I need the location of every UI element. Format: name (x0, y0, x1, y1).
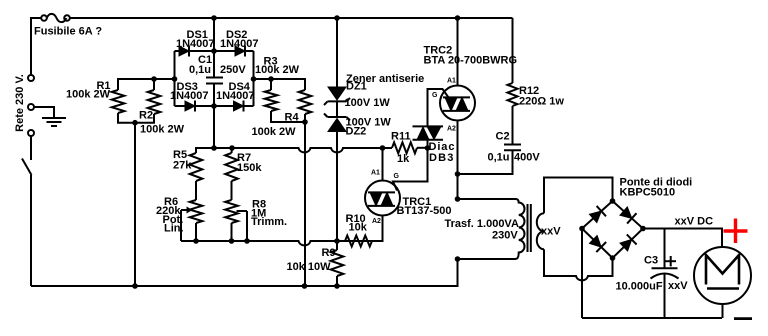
resistor R2 (148, 79, 161, 114)
svg-text:0,1u: 0,1u (488, 151, 510, 163)
junction dot bridge left (172, 76, 178, 82)
label R8 (252, 199, 266, 211)
svg-text:C3: C3 (644, 254, 658, 266)
wire secondary top (544, 178, 613, 214)
junction dot R4 bottom (302, 119, 308, 125)
wire R2-bottom vertical (134, 123, 136, 286)
capacitor C1 (206, 51, 223, 106)
junction dot R4-bottom rail (302, 283, 308, 289)
label R6 Pot. (163, 214, 184, 226)
junction dot bridge top center (211, 48, 217, 54)
junction dot top rail to TRC2 (455, 15, 461, 21)
svg-text:R11: R11 (391, 131, 411, 143)
capacitor C3 plus sign (666, 256, 677, 266)
label DS4 value 1N4007 (216, 90, 255, 102)
svg-text:1N4007: 1N4007 (216, 90, 255, 102)
label R12 (519, 85, 539, 97)
wire phase-shift node (196, 148, 392, 153)
wire R4-bottom vertical (304, 122, 306, 286)
wire bridge center down (213, 106, 215, 148)
svg-text:27k: 27k (173, 160, 192, 172)
resistor R12 (508, 83, 518, 106)
wire bridge right edge (253, 51, 255, 106)
junction dot bridge2 bottom (610, 255, 616, 261)
label R6 value 220k (156, 205, 181, 217)
label DB3 (429, 152, 455, 164)
label DS3 (177, 81, 198, 93)
label DZ2 value 100V 1W (346, 117, 392, 129)
capacitor C3 curved plate (651, 274, 679, 279)
wire bridge top row (175, 50, 254, 52)
label R6 (164, 196, 178, 208)
svg-text:220Ω 1w: 220Ω 1w (519, 96, 564, 108)
label C1 voltage 250V (220, 64, 246, 76)
label R10 (346, 213, 366, 225)
ground earth symbol (42, 118, 66, 126)
diode DS2 (235, 46, 245, 57)
transformer core (528, 204, 531, 252)
svg-text:100k 2W: 100k 2W (255, 64, 300, 76)
svg-text:BTA 20-700BWRG: BTA 20-700BWRG (424, 54, 518, 66)
label secondary xxV (541, 226, 561, 238)
diode DS3 (185, 101, 195, 112)
label xxV DC (675, 215, 714, 227)
svg-text:Fusibile 6A ?: Fusibile 6A ? (34, 26, 102, 38)
wire R7 R8 join (231, 181, 233, 200)
wire R3 R4 top (254, 79, 306, 90)
label C1 (198, 54, 212, 66)
label R6 Lin. (164, 223, 184, 235)
zener diode DZ1 (324, 87, 350, 105)
label DZ1 (346, 81, 367, 93)
label C2 voltage 400V (514, 151, 540, 163)
terminal plug pin E (28, 104, 34, 110)
triac TRC1 (365, 181, 400, 216)
resistor R10 (345, 216, 383, 247)
junction dot R7 top (229, 145, 235, 151)
diac DB3 (413, 126, 444, 139)
trimmer R8 (225, 200, 238, 241)
label DS4 (229, 81, 251, 93)
svg-text:C2: C2 (496, 131, 510, 143)
label R10 value 10k (349, 221, 368, 233)
svg-text:10k: 10k (349, 221, 368, 233)
svg-text:100k 2W: 100k 2W (140, 124, 185, 136)
zener diode DZ2 (324, 114, 350, 132)
wire bridge center top (213, 18, 215, 51)
wire secondary bottom (544, 249, 613, 280)
label DS3 value 1N4007 (170, 90, 209, 102)
svg-text:R2: R2 (139, 110, 153, 122)
svg-text:A2: A2 (372, 218, 381, 225)
fuse F1 Fusibile 6A (41, 14, 512, 22)
terminal plug pin N (28, 130, 34, 136)
wire motor bottom (722, 304, 724, 318)
svg-text:1N4007: 1N4007 (220, 38, 259, 50)
svg-text:100V 1W: 100V 1W (345, 97, 391, 109)
label R8 Trimm. (251, 216, 287, 228)
label R2 (139, 110, 153, 122)
diode bridge2 D4 (620, 234, 637, 251)
wire TRC2 A1 (457, 18, 459, 86)
label R11 (391, 131, 411, 143)
motor M letter (706, 255, 739, 289)
pot R6 wiper arrow (181, 207, 193, 242)
svg-text:DZ2: DZ2 (346, 126, 367, 138)
junction dot bridge bottom center (211, 103, 217, 109)
svg-text:Rete 230 V.: Rete 230 V. (14, 74, 26, 132)
label R9 (322, 247, 336, 259)
wire R5 R6 join (195, 181, 197, 200)
label DZ1 value 100V 1W (345, 97, 391, 109)
junction dot R2 top (151, 76, 157, 82)
label TRC2 value BTA 20-700BWRG (424, 54, 518, 66)
wire top rail to R12 (512, 18, 514, 83)
motor M1 circle (694, 247, 751, 304)
svg-text:Trasf. 1.000VA: Trasf. 1.000VA (445, 218, 519, 230)
svg-text:10.000uF: 10.000uF (616, 280, 663, 292)
wire C3 bottom lead (664, 274, 666, 318)
label KBPC5010 (620, 187, 676, 199)
junction dot bridge2 left (579, 226, 585, 232)
label TRC2 G (432, 92, 438, 99)
label Fusibile 6A ? (34, 26, 102, 38)
junction dot primary top node (455, 196, 461, 202)
terminal plug pin L (28, 75, 34, 81)
polarity plus mark red (724, 219, 748, 244)
wire R3 R4 bottom (271, 111, 305, 122)
label R1 value 100k 2W (66, 89, 111, 101)
svg-text:xxV: xxV (668, 280, 688, 292)
label DS2 (226, 29, 247, 41)
junction dot bridge-center wire (211, 145, 217, 151)
label R5 value 27k (173, 160, 192, 172)
wire diac to TRC2 gate (428, 89, 449, 126)
label TRC2 (424, 44, 453, 56)
label R9 value 10k 10W (287, 261, 332, 273)
junction dot R2-bottom rail (132, 283, 138, 289)
wire TRC1 gate (393, 148, 428, 191)
junction dot R6 bottom (193, 238, 199, 244)
trimmer R8 wiper (237, 211, 248, 241)
svg-text:1N4007: 1N4007 (176, 38, 215, 50)
junction dot primary bottom node (455, 256, 461, 262)
svg-text:DB3: DB3 (429, 152, 455, 164)
junction dot snubber node (455, 171, 461, 177)
junction dot diac node (425, 145, 431, 151)
junction dot bridge2 right (640, 226, 646, 232)
junction dot R2 bottom (132, 120, 138, 126)
label R2 value 100k 2W (140, 124, 185, 136)
wire zener middle (336, 101, 338, 117)
svg-text:R9: R9 (322, 247, 336, 259)
label C2 value 0,1u (488, 151, 510, 163)
switch S1 blade (22, 136, 32, 286)
svg-text:BT137-500: BT137-500 (397, 205, 452, 217)
potentiometer R6 (190, 200, 203, 241)
label TRC1 A1 (371, 170, 380, 177)
label DS2 value 1N4007 (220, 38, 259, 50)
wire R1 R2 top (118, 79, 175, 90)
svg-text:A1: A1 (447, 77, 456, 84)
svg-text:A1: A1 (371, 170, 380, 177)
wire bridge bottom row (175, 105, 254, 107)
svg-text:400V: 400V (514, 151, 540, 163)
wire primary top (458, 198, 516, 200)
label R12 value 220Ω 1w (519, 96, 564, 108)
wire bridge2 minus down (581, 229, 583, 319)
wire zener top (336, 18, 338, 87)
diode bridge2 D2 (620, 207, 637, 224)
label R8 value 1M (251, 207, 266, 219)
svg-text:G: G (432, 92, 438, 99)
wire bottom neutral rail (31, 259, 458, 286)
label TRC1 A2 (372, 218, 381, 225)
capacitor C2 (504, 145, 521, 151)
svg-text:1k: 1k (397, 153, 410, 165)
junction dot bridge right (251, 76, 257, 82)
diode bridge2 D1 (590, 206, 607, 223)
label C1 value 0,1u (189, 64, 211, 76)
label DS1 value 1N4007 (176, 38, 215, 50)
resistor R7 (225, 148, 238, 181)
svg-text:100k 2W: 100k 2W (252, 126, 297, 138)
junction dot top rail to bridge (211, 15, 217, 21)
svg-text:1N4007: 1N4007 (170, 90, 209, 102)
junction dot R9-bottom rail (334, 283, 340, 289)
junction dot top rail to zeners (334, 15, 340, 21)
junction dot R9 node (334, 238, 340, 244)
label 230V (492, 230, 518, 242)
label R3 value 100k 2W (255, 64, 300, 76)
label TRC1 (403, 196, 432, 208)
svg-text:0,1u: 0,1u (189, 64, 211, 76)
resistor R11 (392, 142, 428, 153)
svg-text:Diac: Diac (429, 141, 456, 153)
diode DS4 (234, 101, 244, 112)
capacitor C3 plate (652, 267, 678, 269)
label Diac (429, 141, 456, 153)
svg-text:100k 2W: 100k 2W (66, 89, 111, 101)
label TRC1 value BT137-500 (397, 205, 452, 217)
label TRC2 A1 (447, 77, 456, 84)
label Rete 230 V. (14, 74, 26, 132)
wire diac bottom lead (427, 140, 429, 148)
junction dot R3 top (268, 76, 274, 82)
label Trasf. 1.000VA (445, 218, 519, 230)
resistor R5 (190, 153, 203, 181)
label C3 (644, 254, 658, 266)
svg-text:DZ1: DZ1 (346, 81, 367, 93)
wire bridge2 edges (582, 201, 643, 258)
wire gate supply rail (181, 241, 383, 245)
junction dot TRC1 main (380, 145, 386, 151)
diode DS1 (179, 46, 189, 57)
label TRC1 G (394, 173, 400, 180)
triac TRC2 (440, 86, 475, 121)
wire R1 R2 bottom (118, 113, 154, 123)
label R4 value 100k 2W (252, 126, 297, 138)
diode bridge2 D3 (590, 236, 607, 253)
wire bridge left edge (174, 51, 176, 106)
wire zener bottom (336, 132, 338, 242)
svg-text:Trimm.: Trimm. (251, 216, 287, 228)
wire C3 top lead (664, 229, 666, 269)
resistor R3 (265, 79, 278, 111)
svg-text:KBPC5010: KBPC5010 (620, 187, 676, 199)
label R4 (285, 111, 300, 123)
svg-text:250V: 250V (220, 64, 246, 76)
svg-text:xxV DC: xxV DC (675, 215, 714, 227)
resistor R9 (331, 241, 344, 286)
label R7 (237, 152, 251, 164)
wire DC bottom rail (582, 317, 722, 319)
polarity minus mark (734, 317, 752, 320)
label C3 voltage xxV (668, 280, 688, 292)
label TRC2 A2 (447, 125, 456, 132)
svg-text:10k 10W: 10k 10W (287, 261, 332, 273)
resistor R4 (299, 90, 312, 114)
wire primary bottom (458, 258, 516, 260)
label Ponte di diodi (620, 177, 693, 189)
label C2 (496, 131, 510, 143)
wire mains live top-left corner (31, 18, 41, 75)
wire earth stub (34, 107, 54, 118)
svg-text:G: G (394, 173, 400, 180)
label Zener antiserie (346, 73, 424, 85)
svg-text:A2: A2 (447, 125, 456, 132)
label R11 value 1k (397, 153, 410, 165)
label R5 (173, 149, 187, 161)
label R7 value 150k (237, 162, 262, 174)
junction dot R8 wiper (244, 238, 250, 244)
svg-text:230V: 230V (492, 230, 518, 242)
label R3 (264, 56, 278, 68)
wire DC plus rail (643, 229, 722, 248)
wire R12 to C2 (512, 106, 514, 145)
label R1 (96, 80, 110, 92)
resistor R1 (112, 90, 125, 113)
wire C2 to A2 node (458, 150, 513, 174)
wire TRC2 A2 down (457, 121, 459, 200)
svg-text:150k: 150k (237, 162, 262, 174)
wire TRC1 A1 (382, 148, 384, 181)
svg-text:Lin.: Lin. (164, 223, 184, 235)
junction dot bridge2 top (610, 198, 616, 204)
label DS1 (187, 29, 208, 41)
transformer primary winding (516, 199, 525, 259)
label DZ2 (346, 126, 367, 138)
svg-text:xxV: xxV (541, 226, 561, 238)
junction dot R7 bottom (229, 238, 235, 244)
label C3 value 10.000uF (616, 280, 663, 292)
transformer secondary winding (537, 213, 544, 249)
